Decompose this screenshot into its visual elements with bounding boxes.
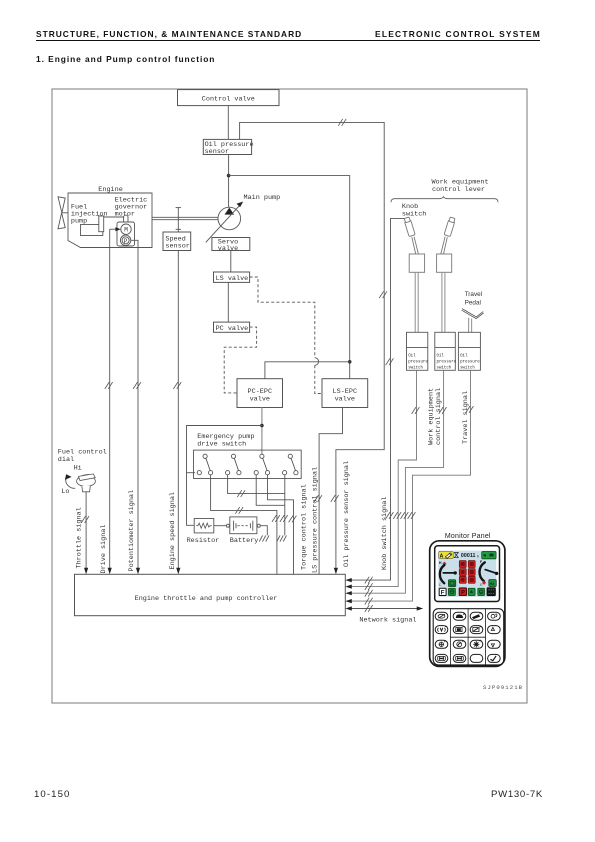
break mark on drive signal wire bbox=[105, 382, 113, 389]
svg-text:P: P bbox=[461, 590, 465, 596]
svg-text:SJP09121B: SJP09121B bbox=[483, 684, 523, 691]
arrow into controller row4 bbox=[345, 599, 352, 603]
svg-text:pressure: pressure bbox=[408, 361, 428, 365]
top right green indicator bbox=[482, 552, 496, 559]
wire: throttle signal (dial to controller) bbox=[85, 492, 87, 568]
work equipment control lever label bbox=[431, 179, 488, 195]
switch unit 2 bbox=[226, 454, 241, 475]
svg-text:LS pressure control signal: LS pressure control signal bbox=[312, 467, 320, 573]
svg-text:dial: dial bbox=[58, 456, 74, 464]
keypad dividers bbox=[451, 609, 486, 665]
wire: knob switch signal bbox=[347, 218, 405, 580]
svg-text:switch: switch bbox=[437, 366, 452, 371]
svg-text:Drive signal: Drive signal bbox=[100, 525, 108, 574]
fuel control dial knob bbox=[77, 474, 96, 492]
mode indicator (yellow) bbox=[439, 552, 454, 560]
wire: PC-EPC valve down to emergency switch bbox=[261, 408, 263, 455]
svg-text:Oil: Oil bbox=[460, 354, 468, 359]
pedal pilot lines bbox=[469, 318, 472, 333]
ground symbol (switch) bbox=[277, 535, 287, 541]
wire: battery to ground bbox=[260, 526, 267, 536]
speed sensor box bbox=[163, 232, 191, 251]
ground symbol (battery) bbox=[259, 535, 269, 541]
svg-text:control signal: control signal bbox=[435, 388, 443, 445]
svg-text:Lo: Lo bbox=[61, 488, 69, 496]
break mark on y122 wire bbox=[338, 119, 346, 126]
svg-text:H: H bbox=[439, 561, 442, 565]
rotated signal label: throttle bbox=[75, 461, 389, 574]
dashed pilot line LS valve to LS-EPC valve (with hop over wire) bbox=[250, 277, 322, 394]
PC-EPC valve box bbox=[237, 379, 283, 408]
svg-text:Potentiometer signal: Potentiometer signal bbox=[128, 490, 136, 572]
drive signal arrow into M bbox=[115, 227, 120, 231]
fuel injection pump plunger bbox=[99, 216, 104, 232]
arrow potentiometer signal into controller bbox=[136, 568, 140, 575]
svg-text:PC valve: PC valve bbox=[216, 325, 249, 333]
junction node below PC-EPC bbox=[260, 424, 264, 428]
keypad outline bbox=[433, 609, 504, 665]
bottom icon green 2 bbox=[468, 588, 475, 595]
arrow throttle signal into controller bbox=[84, 568, 88, 575]
PC valve box bbox=[214, 322, 250, 333]
svg-text:H2: H2 bbox=[490, 582, 495, 586]
svg-text:drive switch: drive switch bbox=[197, 441, 246, 449]
electric governor motor label bbox=[115, 197, 148, 219]
svg-text:Engine: Engine bbox=[98, 186, 122, 194]
svg-text:A: A bbox=[440, 553, 444, 559]
svg-text:switch: switch bbox=[408, 366, 423, 371]
svg-text:Torque control signal: Torque control signal bbox=[300, 484, 308, 570]
green icon left mid bbox=[448, 580, 455, 587]
resistor box bbox=[194, 519, 214, 533]
fuel injection pump body bbox=[81, 225, 103, 236]
wire: node to LS-EPC feed (right then down) bbox=[229, 176, 350, 379]
oil pressure switch 3 bbox=[458, 332, 480, 370]
screen bezel bbox=[435, 546, 500, 602]
footer page number bbox=[34, 789, 70, 800]
svg-text:Engine speed signal: Engine speed signal bbox=[169, 492, 177, 570]
svg-text:valve: valve bbox=[335, 396, 355, 404]
svg-text:Oil: Oil bbox=[437, 354, 445, 359]
break mark on switch4 ground wire bbox=[280, 515, 288, 522]
travel pedal label bbox=[465, 291, 483, 307]
arrow engine speed signal into controller bbox=[176, 568, 180, 575]
LCD screen bbox=[438, 551, 496, 597]
svg-text:Resistor: Resistor bbox=[187, 537, 220, 545]
svg-text:E: E bbox=[480, 583, 483, 587]
svg-text:h: h bbox=[477, 554, 479, 558]
diagram frame bbox=[52, 89, 527, 703]
break marks on knob wire bbox=[386, 358, 394, 365]
junction node below sensor bbox=[227, 174, 231, 178]
temperature gauge bbox=[439, 561, 457, 587]
wire: switch3 left contact jog bbox=[256, 475, 285, 506]
wire: engine speed signal bbox=[177, 251, 179, 569]
warning lamp row2 col1 bbox=[459, 569, 466, 576]
break mark on throttle wire bbox=[81, 516, 89, 523]
svg-text:Travel: Travel bbox=[465, 291, 483, 298]
svg-text:Main pump: Main pump bbox=[244, 194, 281, 202]
fuel gauge bbox=[480, 560, 499, 587]
warning lamp row1 col2 bbox=[468, 561, 475, 568]
svg-text:LS valve: LS valve bbox=[216, 275, 249, 283]
svg-text:switch: switch bbox=[402, 210, 426, 218]
svg-text:00011: 00011 bbox=[461, 553, 476, 559]
main pump circle bbox=[218, 207, 241, 230]
warning lamp row1 col1 bbox=[459, 561, 466, 568]
break mark on x335.9 wire bbox=[331, 495, 339, 502]
bottom icon F bbox=[439, 588, 446, 596]
work equipment lever 1 bbox=[404, 217, 425, 272]
wire: switch2 to ground bus bbox=[228, 475, 285, 494]
svg-text:C: C bbox=[439, 583, 442, 587]
engine output shaft bbox=[152, 217, 218, 219]
svg-text:Monitor Panel: Monitor Panel bbox=[445, 533, 491, 540]
break mark on switch3 wire bbox=[289, 516, 297, 523]
engine outline bbox=[68, 193, 152, 248]
oil pressure sensor box bbox=[203, 139, 253, 156]
servo valve box bbox=[212, 238, 250, 253]
wire: drive signal (from M down to controller) bbox=[110, 228, 116, 230]
wire: resistor to battery bbox=[214, 525, 227, 527]
svg-text:sensor: sensor bbox=[165, 243, 189, 251]
svg-text:F: F bbox=[441, 590, 445, 596]
dashed pilot line PC valve to PC-EPC valve bbox=[224, 327, 256, 393]
governor lever stub bbox=[124, 215, 128, 222]
emergency pump drive switch label bbox=[197, 433, 254, 449]
warning lamp row3 col2 bbox=[468, 576, 475, 583]
hourglass icon bbox=[454, 553, 458, 558]
break mark on engine speed wire bbox=[173, 382, 181, 389]
wire: LS-EPC valve down-left to controller (LS pressure control signal) bbox=[319, 408, 342, 575]
svg-text:valve: valve bbox=[250, 396, 270, 404]
wire: servo valve to LS valve bbox=[230, 251, 232, 273]
arrow into controller top (oil pressure sensor signal) bbox=[334, 568, 338, 575]
main pump triangle bbox=[225, 208, 235, 215]
svg-text:Oil: Oil bbox=[408, 354, 416, 359]
page header left bbox=[36, 29, 302, 39]
svg-text:Battery: Battery bbox=[230, 537, 259, 545]
panel body bbox=[430, 541, 505, 667]
bottom icon red P bbox=[459, 588, 466, 596]
section title bbox=[36, 54, 215, 64]
warning lamp row2 col2 bbox=[468, 569, 475, 576]
wire: feed into switch first contact bbox=[187, 472, 196, 474]
battery box bbox=[226, 517, 260, 534]
break mark on x384 wire bbox=[379, 291, 387, 298]
switch unit 4 bbox=[283, 454, 299, 475]
oil pressure switch 2 bbox=[435, 332, 457, 370]
svg-text:switch: switch bbox=[460, 366, 475, 371]
dial rotation arrow bbox=[65, 474, 75, 488]
svg-text:Throttle signal: Throttle signal bbox=[75, 507, 83, 568]
control valve box bbox=[178, 90, 280, 106]
svg-text:pressure: pressure bbox=[437, 361, 457, 365]
wire: switch3 right contact to controller bbox=[268, 475, 294, 575]
svg-text:pressure: pressure bbox=[460, 361, 480, 365]
switch unit 1 bbox=[197, 454, 213, 475]
junction node above LS-EPC bbox=[348, 360, 352, 364]
wire: switch4 down to ground bbox=[284, 475, 286, 536]
governor motor box bbox=[117, 222, 135, 246]
fuel injection pump label bbox=[71, 204, 108, 226]
network signal line (double arrow) bbox=[345, 605, 423, 612]
break mark on ground bus bbox=[237, 490, 245, 497]
arrow into controller row3 bbox=[345, 591, 352, 595]
keypad icons bbox=[438, 613, 497, 661]
monitor panel U1 bbox=[430, 541, 505, 667]
svg-text:Oil pressure sensor signal: Oil pressure sensor signal bbox=[343, 461, 351, 567]
svg-text:Travel signal: Travel signal bbox=[462, 391, 470, 444]
wire: node to resistor feed (left, down) bbox=[187, 426, 262, 526]
svg-text:valve: valve bbox=[218, 245, 238, 253]
travel pedal symbol bbox=[462, 309, 484, 319]
wire: oil pressure switch2 to controller (work equipment signal 2) bbox=[347, 370, 443, 593]
svg-text:Pedal: Pedal bbox=[465, 300, 481, 307]
wire: control valve to oil pressure sensor bbox=[227, 106, 229, 140]
link rod plunger to governor lever bbox=[104, 216, 124, 218]
break mark on potentiometer wire bbox=[133, 382, 141, 389]
wire: oil pressure switch3 to controller (travel signal) bbox=[347, 370, 470, 601]
svg-text:Hi: Hi bbox=[74, 465, 82, 473]
LS-EPC valve box bbox=[322, 379, 368, 408]
switch unit 3 bbox=[254, 454, 270, 475]
break mark on torque wire horizontal bbox=[235, 507, 243, 514]
lever 2 pilot lines bbox=[442, 272, 445, 332]
oil pressure switch 1 bbox=[407, 332, 429, 370]
arrow drive signal into controller bbox=[108, 568, 112, 575]
knob switch label bbox=[402, 203, 426, 219]
break mark on torque wire vertical bbox=[272, 515, 280, 522]
svg-text:sensor: sensor bbox=[205, 148, 229, 156]
svg-text:control lever: control lever bbox=[432, 186, 485, 194]
main pump variable arrow bbox=[206, 202, 243, 243]
wire: switch1 output to controller (torque control signal) bbox=[211, 475, 277, 575]
page header right bbox=[375, 29, 541, 39]
brace over levers bbox=[391, 197, 498, 203]
work equipment lever 2 bbox=[437, 217, 456, 272]
wire: sensor to main pump bbox=[228, 155, 230, 208]
wire: oil pressure sensor branch to right (to controller via x384) bbox=[240, 122, 385, 567]
wire: node to PC-EPC top bbox=[265, 362, 350, 379]
svg-text:Control valve: Control valve bbox=[202, 96, 255, 104]
motor M circle bbox=[121, 224, 131, 234]
arrow knob switch signal into controller bbox=[345, 578, 352, 582]
svg-text:M: M bbox=[124, 227, 128, 234]
bottom icon black bbox=[487, 588, 496, 596]
rotated label: work equipment control signal bbox=[428, 388, 471, 445]
emergency pump drive switch box bbox=[194, 450, 302, 478]
warning lamp row3 col1 bbox=[459, 576, 466, 583]
arrow into controller row2 bbox=[345, 585, 352, 589]
svg-text:Engine throttle and pump contr: Engine throttle and pump controller bbox=[135, 595, 278, 603]
speed sensor pickup symbol bbox=[176, 208, 181, 232]
LS valve box bbox=[214, 272, 250, 283]
fuel control dial labels bbox=[58, 449, 107, 496]
svg-text:P: P bbox=[124, 238, 128, 245]
keypad buttons bbox=[435, 612, 500, 662]
engine fan bbox=[58, 197, 68, 229]
footer model bbox=[491, 789, 543, 800]
wire: potentiometer signal (P to controller) bbox=[131, 240, 138, 568]
potentiometer P circle bbox=[120, 235, 130, 245]
break mark on LS pressure control wire bbox=[314, 495, 322, 502]
svg-text:Network signal: Network signal bbox=[359, 617, 416, 625]
svg-text:Knob switch signal: Knob switch signal bbox=[381, 497, 389, 570]
header underline bbox=[36, 40, 540, 41]
green icon right mid bbox=[489, 580, 497, 587]
wire: oil pressure switch1 to controller (work equipment signal 1) bbox=[347, 370, 416, 586]
bottom icon green 3 bbox=[478, 588, 485, 595]
engine throttle and pump controller box bbox=[75, 574, 346, 615]
bottom icon green 1 bbox=[448, 588, 455, 595]
wire: LS valve to PC valve bbox=[227, 282, 229, 322]
lever 1 pilot lines bbox=[415, 272, 418, 332]
